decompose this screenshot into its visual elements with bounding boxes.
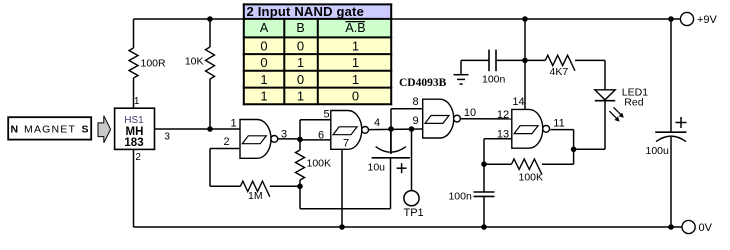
svg-text:1: 1	[352, 55, 359, 70]
svg-text:8: 8	[412, 96, 418, 108]
svg-text:13: 13	[497, 129, 509, 141]
svg-text:HS1: HS1	[124, 115, 144, 126]
svg-text:A.B: A.B	[345, 21, 365, 35]
svg-text:B: B	[296, 21, 304, 35]
svg-text:100R: 100R	[141, 58, 167, 70]
svg-text:+9V: +9V	[697, 14, 718, 26]
svg-text:4: 4	[374, 117, 380, 129]
svg-text:100K: 100K	[307, 158, 332, 170]
svg-text:0: 0	[260, 55, 267, 70]
svg-text:MAGNET: MAGNET	[24, 123, 76, 135]
svg-text:Red: Red	[624, 96, 643, 108]
svg-text:1: 1	[134, 96, 140, 107]
svg-text:2 Input NAND gate: 2 Input NAND gate	[247, 4, 365, 19]
svg-text:1: 1	[352, 72, 359, 87]
svg-text:0V: 0V	[699, 222, 713, 234]
svg-text:CD4093B: CD4093B	[399, 77, 447, 89]
svg-text:TP1: TP1	[404, 207, 424, 219]
svg-text:14: 14	[512, 96, 524, 108]
svg-text:0: 0	[297, 72, 304, 87]
svg-text:N: N	[11, 123, 19, 135]
svg-text:9: 9	[412, 115, 418, 127]
svg-text:6: 6	[318, 129, 324, 141]
svg-text:0: 0	[297, 38, 304, 53]
svg-text:10u: 10u	[368, 162, 386, 174]
svg-text:12: 12	[497, 109, 509, 121]
svg-text:1M: 1M	[248, 190, 263, 202]
svg-text:10: 10	[464, 107, 476, 119]
svg-text:1: 1	[260, 72, 267, 87]
svg-text:S: S	[82, 123, 89, 135]
svg-text:183: 183	[124, 137, 143, 149]
svg-text:100n: 100n	[448, 190, 472, 202]
svg-text:3: 3	[281, 129, 287, 141]
svg-text:2: 2	[223, 136, 229, 148]
svg-text:100K: 100K	[519, 172, 544, 184]
svg-text:5: 5	[323, 109, 329, 121]
svg-text:100n: 100n	[482, 74, 506, 86]
svg-text:1: 1	[352, 38, 359, 53]
svg-text:0: 0	[260, 38, 267, 53]
svg-text:4K7: 4K7	[550, 66, 569, 78]
svg-text:7: 7	[343, 138, 349, 150]
svg-text:0: 0	[352, 89, 359, 104]
svg-text:1: 1	[260, 89, 267, 104]
svg-text:10K: 10K	[185, 56, 204, 68]
svg-text:1: 1	[297, 89, 304, 104]
svg-text:11: 11	[553, 117, 564, 129]
svg-text:3: 3	[164, 131, 170, 142]
svg-text:A: A	[260, 21, 269, 35]
svg-text:100u: 100u	[646, 145, 670, 157]
svg-text:1: 1	[230, 117, 236, 129]
svg-text:1: 1	[297, 55, 304, 70]
svg-text:2: 2	[135, 152, 141, 163]
